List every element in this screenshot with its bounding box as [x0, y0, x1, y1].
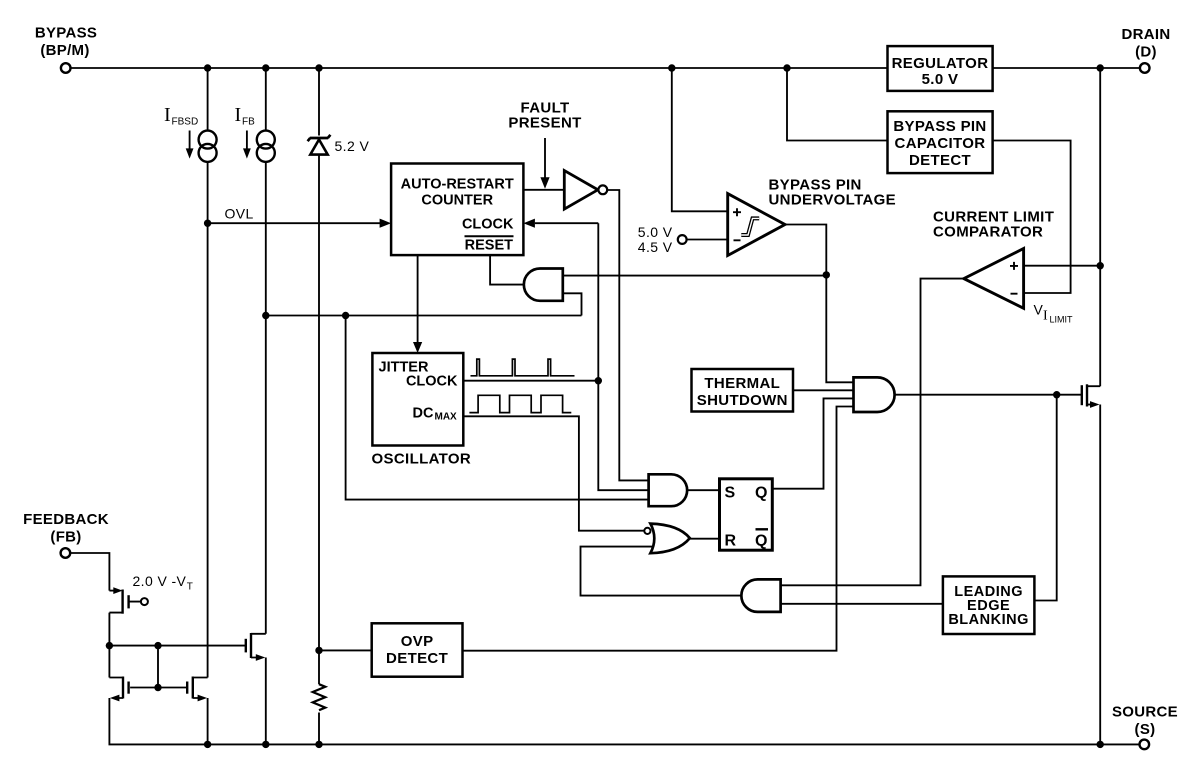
svg-text:(D): (D)	[1135, 44, 1157, 61]
wire clock input to auto-restart counter	[523, 219, 598, 228]
svg-text:5.2 V: 5.2 V	[335, 138, 370, 154]
label OVL	[225, 206, 254, 222]
svg-text:RESET: RESET	[465, 238, 513, 254]
current source IFBSD	[199, 131, 217, 162]
svg-text:I: I	[164, 104, 171, 126]
comparator current limit (left-facing)	[964, 249, 1024, 309]
wire 5.0V reference to minus input	[687, 239, 728, 241]
waveform clock pulses	[471, 359, 575, 376]
waveform dcmax	[469, 395, 571, 412]
wire UV comparator plus input	[672, 68, 728, 211]
svg-text:CLOCK: CLOCK	[406, 374, 458, 390]
wire output mosfet source	[1099, 405, 1101, 745]
terminal SOURCE (S)	[1140, 740, 1150, 750]
svg-text:UNDERVOLTAGE: UNDERVOLTAGE	[769, 192, 897, 209]
wire latch Q to AND	[772, 398, 853, 488]
svg-text:(S): (S)	[1135, 721, 1156, 738]
box oscillator	[372, 353, 463, 446]
arrow IFBSD	[186, 131, 194, 159]
wire T3 source	[207, 698, 209, 744]
wire oscillator clock output	[463, 380, 598, 382]
svg-text:MAX: MAX	[435, 412, 458, 423]
box bypass pin capacitor detect	[888, 111, 993, 173]
svg-text:(BP/M): (BP/M)	[40, 42, 89, 59]
text OVP detect	[386, 633, 448, 667]
current source IFB	[257, 131, 275, 162]
text auto-restart counter	[401, 177, 514, 254]
wire LEB output to AND	[781, 603, 943, 605]
terminal 5.0V 4.5V reference	[678, 235, 687, 244]
svg-text:I: I	[1043, 309, 1048, 324]
box auto-restart counter	[391, 164, 523, 256]
label 2.0 V -VT	[133, 573, 193, 593]
svg-text:FEEDBACK: FEEDBACK	[23, 511, 109, 528]
text leading edge blanking	[948, 584, 1029, 628]
svg-text:V: V	[1034, 302, 1044, 318]
svg-text:CLOCK: CLOCK	[462, 217, 514, 233]
AND gate reset (mirrored)	[524, 269, 563, 301]
AND gate drive (mirrored)	[741, 579, 780, 612]
transistor Q2 mirror left	[109, 677, 128, 702]
label VILIMIT	[1034, 302, 1074, 325]
label FEEDBACK (FB)	[23, 511, 109, 546]
terminal DRAIN (D)	[1140, 63, 1150, 73]
svg-text:4.5 V: 4.5 V	[638, 239, 673, 255]
svg-text:2.0 V -V: 2.0 V -V	[133, 573, 187, 589]
svg-text:CAPACITOR: CAPACITOR	[895, 135, 986, 152]
box thermal shutdown	[692, 369, 794, 412]
svg-text:DETECT: DETECT	[909, 152, 971, 169]
text latch pins S Q R Qbar	[725, 485, 769, 550]
wire clock net vertical	[598, 223, 648, 490]
wire OVL	[208, 219, 392, 228]
wire bypass rail (BP/M)	[71, 67, 1140, 69]
wire auto-restart to oscillator	[413, 255, 422, 353]
wire FB mirror node	[109, 613, 245, 678]
svg-text:DRAIN: DRAIN	[1122, 26, 1171, 43]
wire drain rail	[1099, 68, 1101, 386]
label IFB	[235, 104, 256, 128]
label CURRENT LIMIT COMPARATOR	[933, 209, 1054, 241]
box regulator 5.0V	[888, 46, 993, 91]
wire feedback pin	[70, 553, 109, 591]
label DRAIN (D)	[1122, 26, 1171, 61]
wire current limit comparator output	[781, 279, 964, 586]
svg-text:FB: FB	[242, 117, 255, 128]
svg-text:(FB): (FB)	[50, 529, 81, 546]
svg-text:DC: DC	[413, 406, 434, 422]
resistor R1	[313, 684, 326, 710]
node junction dots	[106, 64, 1104, 748]
transistor Q3 mirror right	[187, 677, 207, 702]
wire LEB-AND output to OR input	[581, 547, 742, 596]
wire reset AND input A	[563, 275, 827, 277]
zener diode 5.2V	[308, 135, 331, 155]
svg-text:T: T	[187, 582, 193, 593]
wire LEB input from gate node	[1034, 395, 1056, 601]
svg-text:Q: Q	[755, 533, 767, 550]
wire fault present arrow	[540, 138, 549, 189]
svg-text:AUTO-RESTART: AUTO-RESTART	[401, 177, 514, 193]
text bypass pin capacitor detect	[893, 118, 986, 169]
svg-text:Q: Q	[755, 485, 767, 502]
terminal FEEDBACK (FB)	[61, 548, 71, 558]
wire current limit comparator plus	[1024, 265, 1101, 267]
svg-text:SOURCE: SOURCE	[1112, 704, 1178, 721]
svg-text:LIMIT: LIMIT	[1050, 315, 1074, 325]
svg-text:COUNTER: COUNTER	[421, 193, 493, 209]
svg-text:REGULATOR: REGULATOR	[892, 55, 989, 72]
wire inverter output to S-AND	[607, 190, 648, 480]
wire reset pin drop	[490, 255, 524, 285]
text thermal shutdown	[697, 375, 788, 409]
label BYPASS PIN UNDERVOLTAGE	[769, 177, 897, 209]
svg-text:FBSD: FBSD	[172, 117, 199, 128]
label 5.2 V	[335, 138, 370, 154]
wire reset AND input B	[563, 293, 582, 315]
wire capacitor-detect output	[993, 141, 1071, 294]
svg-text:SHUTDOWN: SHUTDOWN	[697, 392, 788, 409]
wire zener branch	[318, 68, 320, 744]
transistor Q1 feedback input	[109, 587, 147, 614]
wire mirror gate net	[130, 646, 187, 688]
svg-text:I: I	[235, 104, 242, 126]
svg-text:OVL: OVL	[225, 206, 254, 222]
wire OVP net	[463, 407, 854, 651]
wire output mosfet drain lead	[1087, 385, 1100, 387]
svg-text:R: R	[725, 533, 737, 550]
wire IFB branch	[265, 68, 267, 634]
wire S-AND output to S	[687, 489, 719, 491]
latch SR	[720, 479, 773, 550]
svg-text:BYPASS PIN: BYPASS PIN	[893, 118, 986, 135]
text oscillator pins	[379, 360, 459, 423]
transistor Q4 feedback disable	[246, 633, 266, 661]
label 5.0V 4.5V	[638, 224, 673, 255]
svg-text:BYPASS: BYPASS	[35, 25, 97, 42]
svg-text:THERMAL: THERMAL	[704, 375, 780, 392]
svg-text:5.0 V: 5.0 V	[638, 224, 673, 240]
wire FB disable source	[265, 658, 267, 745]
inverter U1 fault	[564, 171, 607, 210]
label BYPASS (BP/M)	[35, 25, 97, 60]
svg-text:OVP: OVP	[401, 633, 434, 650]
wire OR output to R	[690, 538, 720, 540]
wire feedback sense net	[266, 316, 649, 500]
box leading edge blanking	[943, 576, 1035, 634]
wire source rail	[109, 698, 1139, 744]
box OVP detect	[372, 623, 463, 676]
svg-text:S: S	[725, 485, 736, 502]
wire thermal shutdown output	[793, 389, 854, 391]
AND gate main (4-input)	[854, 377, 895, 412]
text regulator	[892, 55, 989, 88]
label FAULT PRESENT	[508, 100, 581, 132]
label SOURCE (S)	[1112, 704, 1178, 739]
wire oscillator dcmax output	[463, 416, 644, 530]
wire regulator left	[787, 68, 888, 141]
wire OVP detect input	[319, 649, 372, 651]
OR gate R with inverted input	[644, 524, 689, 554]
wire gate drive	[895, 394, 1082, 396]
svg-text:COMPARATOR: COMPARATOR	[933, 224, 1043, 241]
transistor Q5 output mosfet	[1082, 384, 1100, 408]
label OSCILLATOR	[372, 451, 472, 468]
AND gate S (3-input)	[649, 474, 688, 506]
wire UV comparator output	[785, 225, 854, 383]
svg-text:OSCILLATOR: OSCILLATOR	[372, 451, 472, 468]
arrow IFB	[243, 131, 251, 159]
wire IFBSD branch	[207, 68, 209, 678]
svg-text:5.0 V: 5.0 V	[922, 71, 959, 88]
comparator bypass pin undervoltage	[728, 194, 785, 256]
svg-text:DETECT: DETECT	[386, 650, 448, 667]
svg-text:BLANKING: BLANKING	[948, 612, 1029, 628]
svg-text:PRESENT: PRESENT	[508, 115, 581, 132]
wire fault-present to inverter	[523, 189, 564, 191]
label IFBSD	[164, 104, 198, 128]
terminal BYPASS (BP/M)	[61, 63, 71, 73]
